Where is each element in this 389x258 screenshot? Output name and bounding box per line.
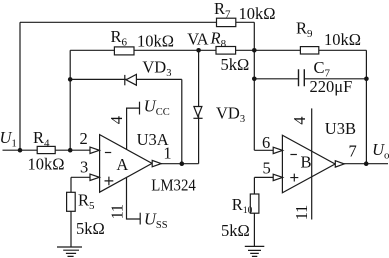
diode VD3 horizontal bbox=[125, 74, 137, 85]
wire right feedback column bbox=[365, 50, 367, 163]
wire output rail U3A bbox=[161, 163, 199, 165]
svg-text:7: 7 bbox=[349, 142, 357, 161]
svg-text:6: 6 bbox=[262, 133, 270, 152]
pin 6 input arrow bbox=[273, 147, 282, 153]
resistor R8 bbox=[216, 47, 236, 55]
svg-text:4: 4 bbox=[290, 117, 309, 125]
op-amp U3B bbox=[282, 135, 335, 193]
svg-text:3: 3 bbox=[80, 157, 88, 176]
resistor R9 bbox=[300, 47, 318, 54]
svg-text:A: A bbox=[116, 155, 128, 174]
wire pin5 lead bbox=[254, 176, 273, 178]
wire pin6 lead bbox=[254, 149, 273, 151]
svg-text:B: B bbox=[301, 152, 312, 171]
svg-text:U3B: U3B bbox=[325, 119, 356, 138]
wire U3B power lead pin4-pin11 bbox=[311, 108, 313, 219]
pin 3 input arrow bbox=[90, 174, 99, 180]
svg-text:11: 11 bbox=[108, 204, 127, 219]
wire top feedback rail (R7 loop) bbox=[20, 21, 254, 23]
svg-text:5kΩ: 5kΩ bbox=[221, 55, 250, 74]
pin 7 output arrow bbox=[335, 161, 344, 167]
wire R5 column bbox=[70, 177, 72, 247]
pin 2 input arrow bbox=[90, 147, 99, 153]
capacitor C7 bbox=[299, 69, 305, 86]
wire pin2 node column bbox=[69, 50, 71, 150]
wire VA diode column bbox=[198, 50, 200, 163]
resistor R7 bbox=[217, 18, 236, 26]
wire left feedback vertical bbox=[19, 22, 21, 150]
wire pin1 feedback column bbox=[181, 79, 183, 163]
wire pin3 lead bbox=[71, 176, 90, 178]
wire middle column to pin6 bbox=[253, 22, 255, 150]
node diode branch bbox=[68, 77, 73, 82]
pin 1 output arrow bbox=[152, 160, 161, 166]
wire R10 column bbox=[253, 177, 255, 246]
svg-text:220μF: 220μF bbox=[310, 77, 353, 96]
wire main top rail R6-VA-R8-R9 bbox=[70, 49, 366, 51]
wire output rail U3B bbox=[344, 163, 388, 165]
svg-text:11: 11 bbox=[292, 205, 311, 220]
wire C7 left segment bbox=[254, 78, 298, 80]
node C7 left bbox=[252, 77, 257, 82]
node U1/feedback junction bbox=[18, 148, 23, 153]
svg-text:LM324: LM324 bbox=[151, 176, 196, 195]
node pin1 output bbox=[180, 161, 185, 166]
wire input rail U1 to pin2 bbox=[3, 149, 91, 151]
svg-text:10kΩ: 10kΩ bbox=[239, 4, 276, 23]
Ucc terminal bar bbox=[139, 102, 141, 115]
node output Uo bbox=[364, 161, 369, 166]
diode VD3 vertical bbox=[193, 107, 202, 119]
resistor R4 bbox=[37, 146, 55, 153]
node VA bbox=[196, 48, 201, 53]
svg-text:5kΩ: 5kΩ bbox=[221, 221, 250, 240]
node R7/R8/R9 junction bbox=[252, 48, 257, 53]
ground below R10 bbox=[245, 246, 264, 256]
svg-text:10kΩ: 10kΩ bbox=[324, 30, 361, 49]
svg-text:4: 4 bbox=[107, 116, 126, 124]
resistor R5 bbox=[67, 192, 76, 211]
op-amp U3A bbox=[100, 135, 152, 193]
svg-text:U3A: U3A bbox=[137, 130, 169, 149]
wire U3A pin4 lead to Ucc bbox=[127, 108, 140, 149]
svg-text:VA: VA bbox=[187, 30, 208, 49]
pin 5 input arrow bbox=[273, 174, 282, 180]
node C7 right bbox=[364, 77, 369, 82]
svg-text:5kΩ: 5kΩ bbox=[76, 219, 105, 238]
ground below R5 bbox=[57, 247, 82, 256]
svg-text:5: 5 bbox=[263, 158, 271, 177]
svg-text:2: 2 bbox=[80, 129, 88, 148]
wire U3A pin11 lead to Uss bbox=[127, 177, 141, 219]
resistor R10 bbox=[250, 194, 259, 213]
node pin2 (R4 right) bbox=[68, 148, 73, 153]
wire C7 right segment bbox=[304, 78, 366, 80]
svg-text:10kΩ: 10kΩ bbox=[28, 154, 65, 173]
svg-text:10kΩ: 10kΩ bbox=[137, 31, 174, 50]
Uss terminal bar bbox=[139, 213, 141, 225]
resistor R6 bbox=[114, 47, 134, 55]
wire diode rail pin2-node to pin1 column bbox=[70, 78, 182, 80]
